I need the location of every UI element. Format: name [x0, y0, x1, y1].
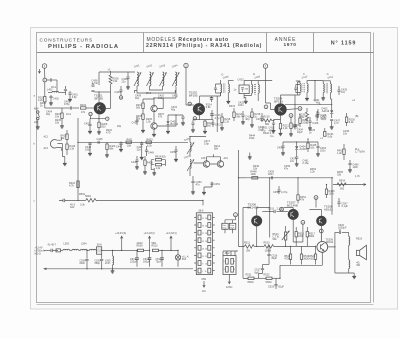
- capacitor C455: [268, 171, 275, 180]
- wire G sec to D402: [331, 98, 333, 100]
- svg-text:R523: R523: [356, 237, 363, 240]
- svg-text:22RN314 (Philips) - RA341 (Rad: 22RN314 (Philips) - RA341 (Radiola): [146, 43, 262, 49]
- svg-text:ANNÉE: ANNÉE: [275, 36, 297, 43]
- junction F-G: [314, 80, 315, 81]
- resistor R217: [233, 108, 243, 121]
- wire return rail: [44, 268, 193, 270]
- svg-text:10: 10: [205, 264, 207, 266]
- svg-text:8,2k: 8,2k: [147, 145, 152, 148]
- node 1b: [106, 117, 109, 121]
- svg-text:4L-45-7: 4L-45-7: [48, 243, 57, 246]
- supply arrow 1: [166, 232, 177, 250]
- svg-text:680p: 680p: [95, 262, 101, 265]
- IC pin boxes right: [208, 215, 211, 273]
- capacitor C445: [97, 138, 104, 144]
- svg-text:12: 12: [205, 256, 207, 258]
- capacitor C429: [316, 109, 326, 120]
- svg-text:4,7k: 4,7k: [69, 185, 74, 188]
- svg-text:560Ω: 560Ω: [85, 195, 91, 198]
- svg-text:BA102: BA102: [171, 123, 179, 126]
- transistor TS207: [288, 209, 299, 220]
- svg-text:600n: 600n: [80, 262, 86, 265]
- svg-text:6,8k: 6,8k: [206, 106, 211, 109]
- capacitor C454: [316, 142, 326, 156]
- resistor R509: [122, 242, 150, 251]
- junction agc: [294, 104, 332, 105]
- svg-text:+13,4V(3): +13,4V(3): [115, 232, 126, 235]
- capacitor C414b: [210, 96, 213, 102]
- svg-text:+13,4V(1): +13,4V(1): [166, 232, 177, 235]
- svg-text:C414: C414: [132, 122, 139, 125]
- svg-text:A16: A16: [201, 157, 206, 160]
- svg-text:R504: R504: [339, 180, 346, 183]
- svg-text:40p: 40p: [46, 113, 51, 116]
- frame double bottom line: [37, 304, 374, 306]
- IFT D core: [224, 84, 225, 94]
- wire bottom mid rail b: [97, 199, 204, 201]
- wire E links: [244, 81, 258, 99]
- junction left af: [238, 177, 239, 178]
- svg-text:28-2: 28-2: [146, 92, 152, 95]
- resistor R425: [156, 164, 162, 171]
- fuse box: [56, 249, 63, 252]
- svg-text:5: 5: [224, 261, 225, 263]
- capacitor C447: [137, 142, 144, 159]
- wire mid right rail: [245, 177, 333, 179]
- svg-text:C458: C458: [273, 191, 280, 194]
- box 38-6: [97, 243, 122, 254]
- capacitor C405: [91, 83, 94, 86]
- svg-text:BF195: BF195: [189, 94, 198, 98]
- capacitor C404: [115, 86, 123, 94]
- connector 36-2: [59, 199, 76, 209]
- svg-text:600: 600: [340, 188, 345, 191]
- svg-text:160μF: 160μF: [143, 260, 151, 263]
- resistor R423: [146, 138, 153, 147]
- svg-text:363: 363: [182, 258, 187, 261]
- node A5: [289, 114, 293, 118]
- IFT E core: [254, 84, 255, 95]
- svg-text:R220 4,7k: R220 4,7k: [263, 132, 275, 135]
- svg-text:18p: 18p: [117, 125, 122, 128]
- svg-text:1000k: 1000k: [265, 249, 273, 252]
- resistor R219 zigzag: [261, 116, 275, 126]
- svg-text:100n: 100n: [238, 104, 244, 107]
- wire input node: [45, 107, 56, 109]
- resistor R405: [136, 114, 145, 133]
- svg-text:500Ω: 500Ω: [266, 281, 272, 284]
- svg-text:390k: 390k: [309, 235, 315, 238]
- resistor R459: [325, 185, 335, 199]
- coil S407 lower: [184, 155, 194, 176]
- coil S406 upper: [184, 137, 194, 157]
- emitter network: [90, 92, 111, 122]
- capacitor C516: [267, 246, 277, 260]
- svg-text:39μF: 39μF: [271, 257, 277, 260]
- wire bottom stage: [243, 246, 280, 278]
- svg-text:17: 17: [202, 233, 204, 235]
- svg-text:220Ω: 220Ω: [137, 242, 143, 245]
- svg-text:C428: C428: [312, 122, 319, 125]
- resistor R516: [295, 227, 304, 246]
- svg-text:24: 24: [205, 218, 207, 220]
- ground osc: [152, 129, 156, 136]
- svg-text:21: 21: [202, 218, 204, 220]
- svg-text:800Ω: 800Ω: [248, 281, 254, 284]
- resistor R420: [105, 142, 116, 157]
- svg-text:AA119: AA119: [300, 148, 308, 151]
- wire agc rail: [285, 95, 332, 124]
- diode D401: [166, 115, 179, 134]
- svg-text:5,6k: 5,6k: [328, 136, 333, 139]
- svg-text:100n: 100n: [85, 148, 91, 151]
- resistor R416: [66, 144, 76, 155]
- svg-text:100n: 100n: [353, 166, 359, 169]
- svg-text:C-L: C-L: [270, 135, 275, 138]
- svg-text:3W: 3W: [356, 264, 360, 267]
- resistor R224: [299, 114, 309, 127]
- svg-text:LW: LW: [34, 121, 38, 124]
- svg-text:L504: L504: [81, 243, 87, 246]
- header divider 1: [143, 33, 145, 53]
- svg-text:3,3k: 3,3k: [80, 204, 85, 207]
- wire osc vertical: [153, 98, 155, 123]
- svg-text:4,7k: 4,7k: [106, 132, 111, 135]
- capacitor C415b: [210, 110, 221, 120]
- wire TS202 base: [186, 104, 194, 106]
- wire volume rail: [333, 184, 366, 186]
- wire mid connect: [203, 200, 251, 246]
- page scan border: [31, 28, 398, 310]
- capacitor C414: [132, 117, 139, 125]
- svg-text:LM: LM: [202, 290, 205, 293]
- svg-text:MW: MW: [202, 278, 207, 281]
- svg-text:A13: A13: [44, 147, 49, 150]
- svg-text:+13,4V(2): +13,4V(2): [144, 232, 155, 235]
- IFT E primary: [252, 81, 253, 96]
- IFT E secondary: [258, 81, 259, 102]
- svg-text:47n: 47n: [284, 168, 289, 171]
- svg-text:0,1μF: 0,1μF: [342, 205, 349, 208]
- svg-text:14: 14: [205, 248, 207, 250]
- svg-text:C407: C407: [84, 123, 91, 126]
- resistor R520: [309, 247, 316, 265]
- wire collector to R206: [99, 91, 111, 93]
- svg-text:40p: 40p: [316, 101, 321, 104]
- header divider 2: [266, 33, 268, 53]
- node NA: [314, 196, 318, 200]
- svg-text:470: 470: [158, 116, 163, 119]
- resistor R228 zigzag: [299, 108, 309, 124]
- capacitor C416: [241, 111, 252, 124]
- capacitor C513: [143, 250, 151, 266]
- svg-text:R204: R204: [80, 104, 87, 107]
- IC module 38-6: [194, 213, 215, 275]
- IC pin boxes left: [198, 215, 201, 273]
- svg-text:C453: C453: [277, 147, 284, 150]
- coil bus inner: [150, 87, 163, 91]
- ground C424: [244, 98, 248, 104]
- node 7: [263, 64, 267, 103]
- IFT G core: [326, 83, 327, 93]
- svg-text:15: 15: [202, 241, 204, 243]
- ground mid 2: [248, 153, 252, 160]
- svg-text:50μF: 50μF: [278, 285, 284, 288]
- svg-text:4A2: 4A2: [70, 206, 75, 209]
- resistor R209: [97, 122, 108, 134]
- wire TS205 links: [194, 154, 221, 164]
- capacitor C402b: [49, 95, 59, 105]
- capacitor C460: [348, 160, 359, 172]
- oscillator transistor TS202c: [151, 123, 157, 129]
- svg-text:C448: C448: [131, 161, 138, 164]
- svg-text:2mH: 2mH: [105, 262, 110, 265]
- coil L504: [81, 243, 97, 251]
- svg-text:20: 20: [205, 226, 207, 228]
- transistor TS204: [275, 104, 287, 116]
- IFT F core: [303, 83, 304, 93]
- svg-text:C449: C449: [148, 152, 155, 155]
- resistor R512 zigzag: [244, 242, 254, 253]
- wires dim box: [225, 217, 236, 234]
- capacitor C413: [205, 120, 222, 127]
- diode D404: [295, 142, 307, 154]
- capacitor C517: [255, 260, 270, 274]
- capacitor C406: [91, 80, 99, 103]
- svg-text:4: 4: [234, 269, 235, 271]
- svg-text:120k: 120k: [329, 193, 335, 196]
- svg-text:38-6: 38-6: [198, 210, 204, 213]
- boxed capacitor Com: [229, 223, 235, 229]
- DIN pins: [226, 259, 234, 273]
- svg-text:220μF: 220μF: [130, 260, 138, 263]
- resistor R422: [69, 181, 79, 188]
- svg-text:2,2k: 2,2k: [310, 171, 315, 174]
- header divider 3: [313, 33, 315, 53]
- capacitor C451: [210, 182, 220, 187]
- svg-text:6: 6: [234, 261, 235, 263]
- capacitor C411: [181, 115, 185, 125]
- svg-text:19: 19: [202, 226, 204, 228]
- capacitor C431: [314, 99, 321, 105]
- resistor R453: [337, 144, 345, 160]
- resistor R504 zigzag: [337, 180, 346, 191]
- svg-text:R521: R521: [246, 274, 253, 277]
- svg-text:1000μF: 1000μF: [338, 227, 347, 230]
- wire mid rail: [78, 141, 188, 143]
- capacitor C509: [95, 254, 104, 269]
- resistor R445: [307, 139, 317, 152]
- svg-text:1,2k: 1,2k: [156, 167, 161, 170]
- capacitor C444: [85, 142, 92, 155]
- IC outer box: [196, 213, 212, 275]
- capacitor C520: [335, 224, 349, 234]
- capacitor C419: [256, 113, 264, 122]
- resistor R522: [264, 274, 281, 284]
- resistor R519: [300, 246, 309, 264]
- wire af rail: [239, 226, 297, 246]
- node 1 (antenna socket): [42, 64, 47, 69]
- svg-text:75μF: 75μF: [156, 260, 162, 263]
- svg-text:130p: 130p: [158, 97, 164, 100]
- IFT G primary: [321, 84, 325, 100]
- svg-text:L503: L503: [64, 243, 70, 246]
- resistor R204 (base): [81, 107, 94, 109]
- svg-text:270μ: 270μ: [222, 228, 226, 230]
- svg-text:18: 18: [205, 233, 207, 235]
- IC MW arrow: [202, 278, 207, 293]
- transistor TS203: [50, 137, 61, 151]
- DIN pin numbers: [224, 261, 235, 271]
- capacitor C514: [156, 250, 164, 266]
- label scatter: [40, 92, 360, 178]
- capacitor C448: [131, 156, 139, 169]
- node 10: [287, 107, 302, 111]
- svg-text:AD162: AD162: [326, 241, 334, 244]
- wire af verticals: [270, 178, 298, 208]
- svg-text:L402: L402: [47, 89, 53, 92]
- svg-text:3: 3: [224, 269, 225, 271]
- wire bottom mid rail: [65, 199, 86, 201]
- wire antenna branch down: [44, 82, 46, 97]
- DIN connector 38-2: [223, 252, 236, 274]
- svg-text:4,7μ: 4,7μ: [215, 117, 220, 120]
- coil L401: [48, 80, 59, 93]
- svg-text:1,5k: 1,5k: [113, 80, 118, 83]
- resistor R510: [152, 242, 179, 251]
- svg-text:1970: 1970: [283, 42, 296, 48]
- node 61: [234, 213, 238, 217]
- resistor R517: [306, 227, 315, 246]
- svg-text:470Ω: 470Ω: [284, 258, 290, 261]
- svg-text:A2Ω: A2Ω: [309, 258, 314, 261]
- svg-text:4,7n: 4,7n: [334, 122, 339, 125]
- tuning coil S404: [172, 64, 179, 87]
- node 19: [193, 117, 197, 121]
- power +2: [108, 69, 111, 76]
- wire output verticals: [293, 220, 321, 247]
- wire DIN up: [223, 251, 237, 256]
- supply arrow 2: [144, 232, 155, 250]
- tuning coil S403: [159, 64, 166, 87]
- svg-text:R522: R522: [264, 274, 271, 277]
- resistor R218: [250, 108, 261, 127]
- schematic frame: [37, 33, 371, 303]
- svg-text:C411: C411: [172, 95, 178, 98]
- potentiometer R514: [273, 226, 290, 246]
- svg-text:56Ω: 56Ω: [152, 242, 157, 245]
- supply arrow 3: [115, 232, 126, 250]
- wire S406 top: [190, 137, 206, 143]
- resistor R216: [220, 113, 231, 130]
- node 18b: [188, 102, 192, 106]
- capacitor C461: [303, 160, 310, 166]
- capacitor C407: [84, 119, 92, 134]
- svg-text:100n: 100n: [320, 150, 326, 153]
- svg-text:AL0: AL0: [224, 157, 229, 160]
- svg-text:22n: 22n: [122, 81, 127, 84]
- ground TS203: [63, 162, 67, 166]
- speaker transformer upper: [349, 237, 350, 249]
- ground mid 1: [202, 187, 212, 195]
- svg-text:100k: 100k: [251, 173, 257, 176]
- svg-text:47n: 47n: [196, 184, 201, 187]
- svg-text:100k: 100k: [249, 137, 255, 140]
- wire top of D404: [283, 141, 318, 143]
- junction dim: [202, 200, 237, 252]
- capacitor C453: [277, 142, 285, 155]
- svg-text:9: 9: [202, 264, 203, 266]
- svg-text:10n: 10n: [343, 133, 348, 136]
- svg-text:8: 8: [205, 271, 206, 273]
- svg-text:BF195: BF195: [274, 100, 283, 104]
- svg-text:12NC: 12NC: [226, 286, 233, 289]
- resistor R221: [279, 124, 290, 136]
- svg-text:R424 82k: R424 82k: [155, 155, 166, 158]
- wire TS204 emitter: [274, 116, 281, 124]
- resistor R501 zigzag: [79, 193, 96, 207]
- header table bottom rule: [37, 52, 374, 54]
- svg-text:CONSTRUCTEURS: CONSTRUCTEURS: [40, 38, 94, 43]
- capacitor C428: [308, 117, 319, 130]
- wire left af rail: [239, 150, 241, 246]
- svg-text:22n: 22n: [137, 149, 142, 152]
- IFT F primary: [300, 81, 301, 95]
- resistor R518: [284, 246, 291, 264]
- node 3: [264, 105, 268, 109]
- capacitor C412: [191, 123, 195, 132]
- svg-text:470p: 470p: [64, 103, 70, 106]
- capacitor C400: [68, 91, 78, 102]
- svg-text:0,47μ: 0,47μ: [281, 191, 288, 194]
- svg-text:40p: 40p: [245, 118, 250, 121]
- capacitor C515: [262, 208, 288, 214]
- svg-text:MODÈLES Récepteurs auto: MODÈLES Récepteurs auto: [147, 36, 229, 43]
- resistor R223: [289, 117, 300, 136]
- transistor TS205b: [217, 157, 228, 167]
- svg-text:C446: C446: [116, 146, 123, 149]
- transistor TS208: [316, 216, 326, 226]
- transistor TS201: [94, 102, 106, 114]
- svg-text:A12: A12: [44, 136, 49, 139]
- frame double right line: [373, 33, 375, 303]
- wire E to F: [258, 81, 300, 96]
- wire osc links: [143, 87, 183, 126]
- svg-text:270k: 270k: [299, 116, 305, 119]
- capacitor C458: [273, 186, 288, 194]
- resistor R451: [297, 195, 307, 204]
- resistor R435: [345, 113, 355, 126]
- capacitor C507: [337, 198, 348, 208]
- svg-text:6,8p: 6,8p: [72, 96, 77, 99]
- svg-text:8,2k: 8,2k: [349, 121, 354, 124]
- capacitor C452: [170, 146, 178, 155]
- trimmer C426: [294, 85, 300, 93]
- trimmer C410: [214, 84, 221, 93]
- svg-text:2,2μF: 2,2μF: [277, 208, 284, 211]
- resistor R448: [251, 171, 258, 179]
- svg-text:220n: 220n: [268, 173, 274, 176]
- svg-text:R423: R423: [147, 138, 154, 141]
- IC pin stubs left: [194, 217, 196, 270]
- svg-text:1,5k: 1,5k: [146, 121, 151, 124]
- svg-text:C445: C445: [97, 138, 104, 141]
- svg-text:2,2k: 2,2k: [224, 121, 229, 124]
- IFT F secondary: [305, 81, 309, 101]
- resistor R231: [324, 128, 334, 139]
- capacitor C437: [330, 120, 341, 130]
- junction af: [269, 177, 327, 185]
